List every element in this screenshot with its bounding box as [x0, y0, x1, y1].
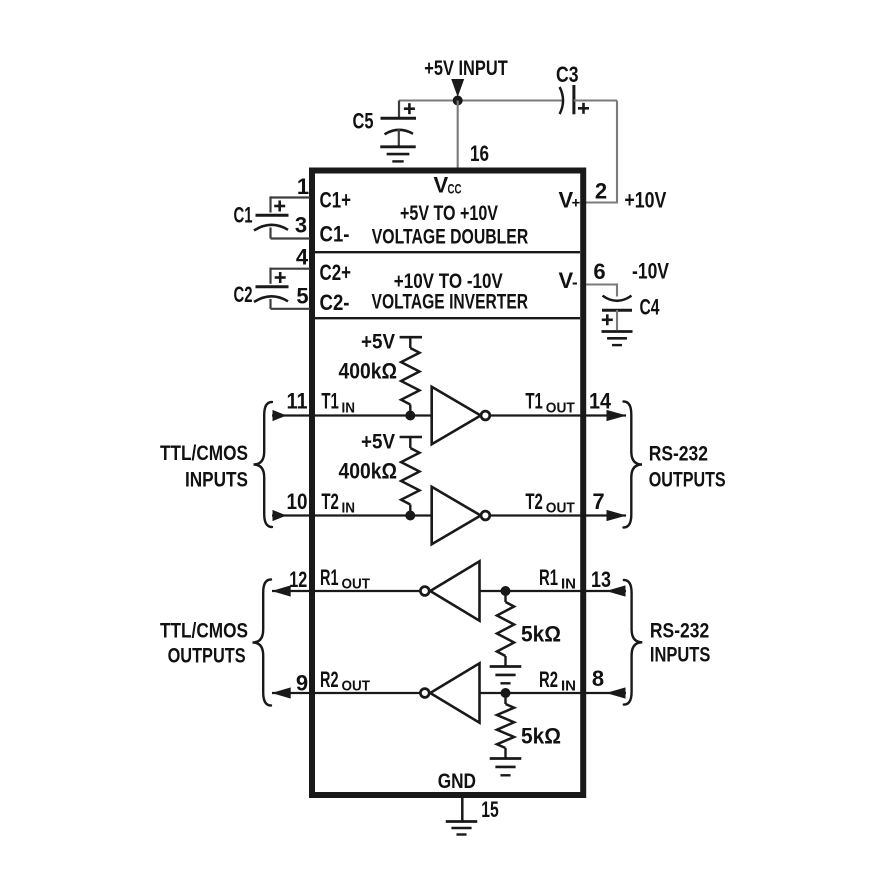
capacitor C3 [560, 85, 574, 114]
label T2IN [321, 489, 355, 517]
capacitor C4 [602, 296, 632, 330]
wire: resistor to node (T2) [409, 505, 411, 516]
label OUTPUTS (left) [168, 645, 246, 668]
svg-text:V: V [434, 173, 449, 198]
svg-text:7: 7 [592, 489, 604, 514]
svg-text:3: 3 [295, 213, 307, 238]
label C2 [234, 282, 253, 307]
svg-text:400kΩ: 400kΩ [339, 358, 398, 383]
svg-text:C2+: C2+ [320, 260, 352, 285]
svg-text:C2: C2 [234, 282, 253, 307]
wire: +5V rail left (to C5) [399, 99, 458, 101]
resistor 400kohm (T1) [401, 348, 419, 405]
label TTL/CMOS (outputs) [160, 620, 248, 643]
svg-text:IN: IN [342, 399, 356, 416]
svg-text:C3: C3 [556, 62, 579, 87]
resistor 5kohm (R1) [497, 602, 514, 656]
svg-text:R1: R1 [320, 565, 339, 590]
label 5k ohm (R2) [521, 724, 561, 749]
arrow into R2IN [606, 687, 626, 698]
capacitor C2 [254, 287, 289, 309]
wire: pin 3 stub [271, 237, 311, 239]
receiver inverter bubble (R2) [420, 689, 429, 698]
svg-text:C4: C4 [640, 295, 661, 320]
C5 polarity + [404, 103, 415, 114]
receiver inverter (R2) [430, 663, 479, 722]
svg-text:15: 15 [481, 797, 499, 822]
label C1 [234, 203, 253, 228]
ground (5k R2) [490, 759, 522, 776]
svg-text:OUTPUTS: OUTPUTS [168, 645, 246, 668]
label R2IN [539, 667, 576, 695]
label T1IN [321, 389, 355, 417]
svg-text:INPUTS: INPUTS [650, 644, 711, 667]
pin 2 label [595, 179, 607, 204]
inverter bubble (T1) [481, 411, 490, 420]
pin 14 label [589, 389, 612, 414]
capacitor C5 lead [398, 101, 400, 118]
label +5V (for T1 pull-up) [361, 331, 395, 354]
node: T1 input junction [405, 411, 415, 421]
wire: T2IN line [272, 514, 432, 516]
ground (5k R1) [490, 667, 522, 684]
svg-text:13: 13 [591, 567, 611, 592]
wire: R1OUT line [272, 590, 421, 592]
svg-text:+: + [572, 195, 581, 212]
node: R1 input junction [501, 586, 511, 596]
C4 polarity + [602, 314, 613, 325]
wire: 5k to ground (R2) [504, 748, 506, 759]
label R2OUT [320, 667, 370, 695]
pin 6 label [593, 259, 605, 284]
inverter bubble (T2) [481, 511, 490, 520]
node: T2 input junction [405, 511, 415, 521]
label C5 [353, 109, 374, 134]
ground (C4) [602, 332, 633, 346]
label R1IN [539, 565, 576, 593]
pin 16 label [470, 141, 489, 166]
svg-text:INPUTS: INPUTS [185, 469, 248, 492]
svg-text:T2: T2 [321, 489, 339, 514]
wire: pin 5 stub [271, 308, 311, 310]
C3 polarity + [578, 103, 589, 114]
svg-text:6: 6 [593, 259, 605, 284]
wire: pin 6 stub [586, 283, 617, 296]
wire: pin 4 stub [271, 268, 311, 284]
wire: pin 1 stub [271, 196, 311, 212]
label C4 [640, 295, 661, 320]
svg-text:10: 10 [287, 489, 308, 514]
label VOLTAGE DOUBLER [372, 226, 529, 249]
label C1- [320, 222, 350, 247]
svg-text:11: 11 [287, 389, 308, 414]
svg-text:+5V: +5V [361, 331, 395, 354]
arrow out of T1OUT [607, 410, 627, 421]
capacitor C5 [381, 118, 417, 147]
svg-text:C2-: C2- [320, 290, 350, 315]
label V- [559, 268, 578, 293]
svg-text:2: 2 [595, 179, 607, 204]
IC U1 outline [312, 171, 583, 796]
label +5V INPUT [424, 57, 508, 80]
pin 5 label [296, 284, 308, 309]
pin 15 label [481, 797, 499, 822]
svg-text:OUT: OUT [546, 399, 575, 416]
receiver inverter (R1) [430, 561, 479, 620]
arrow out of R2OUT [272, 687, 291, 698]
svg-text:8: 8 [592, 666, 604, 691]
wire: T1OUT line [490, 414, 626, 416]
brace: RS-232 outputs [624, 402, 643, 528]
ground (pin 15) [446, 822, 478, 835]
C2 polarity + [275, 272, 286, 283]
svg-text:T2: T2 [525, 489, 543, 514]
svg-text:C1+: C1+ [320, 188, 352, 213]
arrow into T1IN [273, 410, 287, 421]
svg-text:-: - [572, 273, 578, 292]
divider: inverter/drivers [315, 317, 580, 319]
label GND [438, 770, 476, 793]
svg-text:VOLTAGE INVERTER: VOLTAGE INVERTER [372, 291, 529, 314]
+5V tick (T1) [400, 336, 422, 339]
label RS-232 (inputs) [650, 620, 709, 643]
svg-text:C1: C1 [234, 203, 253, 228]
svg-text:R2: R2 [539, 667, 558, 692]
svg-text:9: 9 [296, 670, 308, 695]
label +10V [624, 188, 666, 213]
driver inverter (T2) [432, 487, 481, 544]
svg-text:CC: CC [448, 181, 462, 197]
pin 13 label [591, 567, 611, 592]
arrow out of R1OUT [272, 585, 291, 596]
label TTL/CMOS (inputs) [160, 442, 248, 465]
label OUTPUTS (right) [649, 469, 726, 492]
svg-text:4: 4 [296, 245, 309, 270]
svg-text:C1-: C1- [320, 222, 350, 247]
pin 3 label [295, 213, 307, 238]
label T2OUT [525, 489, 574, 517]
svg-text:400kΩ: 400kΩ [339, 458, 398, 483]
wire: R2IN line [480, 692, 627, 694]
svg-text:T1: T1 [525, 389, 543, 414]
ground (C5) [380, 147, 416, 162]
resistor 400k (T2) lead [409, 437, 411, 448]
label VCC [434, 173, 462, 198]
svg-text:OUT: OUT [342, 575, 371, 592]
driver inverter (T1) [432, 387, 481, 444]
wire: R1IN line [480, 590, 627, 592]
receiver inverter bubble (R1) [420, 587, 429, 596]
+5V input arrow [451, 79, 464, 97]
label INPUTS (left) [185, 469, 248, 492]
node: R2 input junction [501, 688, 511, 698]
resistor 5kohm (R2) [497, 704, 514, 748]
svg-text:5kΩ: 5kΩ [521, 724, 561, 749]
wire: C3 to V+ corner [574, 101, 617, 203]
label +5V TO +10V [400, 202, 498, 225]
label 400k ohm (T2) [339, 458, 398, 483]
brace: RS-232 inputs [624, 580, 643, 705]
wire: pin 2 stub [586, 201, 618, 203]
wire: +5V rail right (to C3) [458, 99, 562, 101]
arrow into R1IN [606, 585, 626, 596]
svg-text:R1: R1 [539, 565, 558, 590]
svg-text:+10V TO -10V: +10V TO -10V [394, 270, 503, 293]
label C1+ [320, 188, 352, 213]
svg-text:5: 5 [296, 284, 308, 309]
pin 1 label [297, 174, 309, 199]
label 400k ohm (T1) [339, 358, 398, 383]
label T1OUT [525, 389, 574, 417]
wire: pin16 drop [457, 101, 459, 169]
wire: R2OUT line [272, 692, 421, 694]
svg-text:VOLTAGE DOUBLER: VOLTAGE DOUBLER [372, 226, 529, 249]
svg-text:16: 16 [470, 141, 489, 166]
svg-text:IN: IN [342, 500, 356, 517]
svg-text:RS-232: RS-232 [650, 620, 709, 643]
label C2+ [320, 260, 352, 285]
svg-text:OUT: OUT [342, 677, 371, 694]
wire: resistor to node (T1) [409, 405, 411, 416]
svg-text:TTL/CMOS: TTL/CMOS [160, 442, 248, 465]
node: +5V input junction [453, 96, 463, 106]
svg-text:OUT: OUT [546, 500, 575, 517]
svg-text:C5: C5 [353, 109, 374, 134]
pin 4 label [296, 245, 309, 270]
divider: doubler/inverter [315, 251, 580, 253]
wire: T2OUT line [490, 514, 626, 516]
svg-text:+10V: +10V [624, 188, 666, 213]
resistor 400k (T1) lead [409, 337, 411, 348]
wire: T1IN line [272, 414, 432, 416]
C1 polarity + [274, 201, 285, 212]
capacitor C1 [254, 215, 289, 238]
pin 9 label [296, 670, 308, 695]
brace: TTL/CMOS inputs [254, 402, 273, 527]
svg-text:OUTPUTS: OUTPUTS [649, 469, 726, 492]
svg-text:TTL/CMOS: TTL/CMOS [160, 620, 248, 643]
svg-text:+5V: +5V [361, 430, 395, 453]
svg-text:5kΩ: 5kΩ [521, 622, 561, 647]
svg-text:12: 12 [289, 567, 307, 592]
label +10V TO -10V [394, 270, 503, 293]
wire: 5k to ground (R1) [504, 656, 506, 667]
pin 10 label [287, 489, 308, 514]
label -10V [632, 259, 669, 284]
pin 7 label [592, 489, 604, 514]
arrow out of T2OUT [607, 510, 627, 521]
label C3 [556, 62, 579, 87]
svg-text:T1: T1 [321, 389, 339, 414]
pin 12 label [289, 567, 307, 592]
resistor 400kohm (T2) [401, 448, 419, 505]
svg-text:1: 1 [297, 174, 309, 199]
label RS-232 (outputs) [649, 443, 708, 466]
svg-text:RS-232: RS-232 [649, 443, 708, 466]
label C2- [320, 290, 350, 315]
svg-text:GND: GND [438, 770, 476, 793]
resistor 5kohm (R2) lead [504, 693, 506, 704]
arrow into T2IN [273, 510, 287, 521]
resistor 5kohm (R1) lead [504, 591, 506, 602]
pin 11 label [287, 389, 308, 414]
svg-text:14: 14 [589, 389, 612, 414]
svg-text:-10V: -10V [632, 259, 669, 284]
label R1OUT [320, 565, 370, 593]
pin 8 label [592, 666, 604, 691]
label VOLTAGE INVERTER [372, 291, 529, 314]
svg-text:IN: IN [561, 575, 576, 592]
brace: TTL/CMOS outputs [253, 580, 272, 706]
label 5k ohm (R1) [521, 622, 561, 647]
label +5V (for T2 pull-up) [361, 430, 395, 453]
+5V tick (T2) [400, 436, 422, 439]
svg-text:R2: R2 [320, 667, 339, 692]
svg-text:+5V TO +10V: +5V TO +10V [400, 202, 498, 225]
label INPUTS (right) [650, 644, 711, 667]
wire: pin 15 [461, 795, 464, 821]
svg-text:IN: IN [561, 677, 576, 694]
svg-text:+5V INPUT: +5V INPUT [424, 57, 508, 80]
label V+ [559, 188, 581, 213]
